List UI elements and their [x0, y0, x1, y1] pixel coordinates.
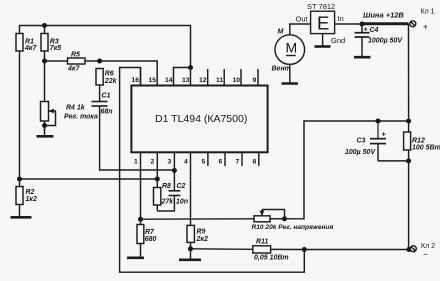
- capacitor C2: [169, 191, 181, 196]
- svg-text:E: E: [317, 13, 329, 34]
- resistor R8: [154, 179, 161, 211]
- node junction R5/R6/pin15: [97, 59, 102, 64]
- wire C2 top stub: [173, 171, 175, 191]
- pin number 16: [132, 77, 140, 84]
- svg-text:4: 4: [184, 159, 188, 166]
- svg-text:1000µ 50V: 1000µ 50V: [368, 38, 403, 45]
- label ST 7812: [307, 2, 335, 11]
- svg-text:C1: C1: [102, 93, 111, 100]
- ground below R4: [37, 126, 54, 137]
- svg-text:4к7: 4к7: [24, 45, 37, 52]
- svg-text:R7: R7: [145, 229, 155, 236]
- node junction R9/R11: [188, 246, 193, 251]
- svg-text:8: 8: [253, 159, 257, 166]
- wire R9 node to R11: [191, 248, 253, 251]
- svg-text:In: In: [338, 14, 344, 23]
- ground below R9: [179, 249, 201, 260]
- label C1 68n: [101, 93, 113, 116]
- svg-text:14: 14: [165, 77, 173, 84]
- svg-text:C2: C2: [177, 183, 186, 190]
- pin 3 wire down to node: [173, 152, 175, 170]
- svg-text:6: 6: [219, 159, 223, 166]
- svg-text:0,05 10Вт: 0,05 10Вт: [254, 254, 289, 261]
- pin number 3: [168, 159, 172, 166]
- label Vent: [272, 66, 291, 73]
- pin number 1: [134, 159, 138, 166]
- capacitor C1: [92, 102, 108, 107]
- resistor R2: [16, 179, 23, 216]
- svg-text:9: 9: [253, 77, 257, 84]
- label R9 2k2: [196, 229, 208, 244]
- svg-text:+: +: [382, 130, 387, 139]
- svg-text:100µ 50V: 100µ 50V: [345, 149, 376, 156]
- ground below C4: [354, 56, 371, 59]
- svg-text:D1 TL494 (КА7500): D1 TL494 (КА7500): [155, 113, 247, 125]
- svg-text:Кл 2: Кл 2: [421, 243, 435, 250]
- pin 11 stub: [223, 69, 225, 86]
- resistor R6: [96, 69, 103, 102]
- node junction pin2/R8: [155, 177, 160, 182]
- wire 7812 Gnd to ground: [315, 34, 331, 47]
- svg-text:Gnd: Gnd: [331, 36, 345, 45]
- wire R10 node up to C3/R12 rail: [285, 121, 409, 219]
- svg-text:16: 16: [132, 77, 140, 84]
- node junction pin3/C2/C1-wire: [172, 168, 177, 173]
- svg-text:680: 680: [145, 236, 157, 243]
- wire node to pin 15: [100, 61, 158, 86]
- node junction R1/R2/pin2 wire: [17, 177, 22, 182]
- svg-text:10: 10: [233, 77, 241, 84]
- pin 6 stub: [224, 152, 226, 166]
- svg-text:R2: R2: [26, 189, 35, 196]
- label Shina +12V: [363, 11, 404, 20]
- svg-text:R5: R5: [71, 52, 80, 59]
- svg-text:R6: R6: [105, 71, 114, 78]
- motor M underline: [286, 55, 296, 57]
- wire R1 bottom to R2 node: [19, 51, 21, 179]
- pin 8 stub: [258, 152, 260, 166]
- svg-text:Out: Out: [296, 15, 309, 24]
- pin number 10: [233, 77, 241, 84]
- wire top rail from R1 to pin 13 column: [20, 26, 191, 86]
- svg-text:1: 1: [134, 159, 138, 166]
- svg-text:27k: 27k: [161, 199, 175, 206]
- svg-text:R12: R12: [412, 138, 425, 145]
- wire bus down right side to R12 node: [408, 24, 410, 121]
- pin number 12: [199, 77, 207, 84]
- resistor R1: [16, 34, 23, 52]
- label R2 1k2: [26, 189, 37, 203]
- label R8 27k: [161, 183, 175, 206]
- node junction R11/bottom rail: [302, 247, 307, 252]
- pin number 11: [216, 77, 223, 84]
- svg-text:22k: 22k: [104, 78, 118, 85]
- svg-text:100 5Вт: 100 5Вт: [412, 145, 440, 152]
- pin number 13: [182, 77, 190, 84]
- wire pin 16 to ground rail and up to R11 node: [120, 68, 305, 273]
- label R7 680: [145, 229, 157, 243]
- resistor R7: [137, 219, 144, 256]
- svg-text:R11: R11: [256, 238, 268, 245]
- resistor R9: [187, 225, 194, 248]
- label R11 0,05 10W: [254, 238, 289, 261]
- svg-text:R4 1k: R4 1k: [66, 105, 86, 112]
- node junction R4 wiper/ground: [42, 123, 47, 128]
- wire R10 right end: [270, 218, 285, 220]
- label C3 100u 50V plus: [345, 130, 387, 157]
- svg-text:1к2: 1к2: [26, 196, 37, 203]
- pin number 6: [219, 159, 223, 166]
- potentiometer R10: [254, 210, 285, 222]
- svg-text:11: 11: [216, 77, 223, 84]
- label D1 TL494 (KA7500): [155, 113, 247, 125]
- label R1 4k7: [24, 39, 37, 53]
- pin 10 stub: [240, 69, 242, 86]
- wire pin 14 tie to pin 13: [174, 68, 191, 86]
- svg-text:68n: 68n: [101, 109, 113, 116]
- capacitor C3: [370, 121, 409, 161]
- svg-text:7к5: 7к5: [50, 45, 61, 52]
- pin 1 wire down to R7 node: [140, 152, 142, 219]
- pin number 14: [165, 77, 173, 84]
- svg-text:M: M: [286, 40, 298, 56]
- svg-text:10n: 10n: [176, 199, 188, 206]
- potentiometer R4: [41, 61, 57, 131]
- svg-text:Рег. тока: Рег. тока: [64, 114, 98, 121]
- node junction pin1/R7: [138, 217, 143, 222]
- pin number 15: [149, 77, 157, 84]
- label C2 10n: [176, 183, 188, 206]
- label M designator: [278, 29, 284, 36]
- svg-text:2к2: 2к2: [196, 236, 208, 243]
- pin 4 wire down to R9: [190, 152, 192, 225]
- pin 5 stub: [207, 152, 209, 166]
- node junction R12 bottom / C3 bottom: [406, 158, 411, 163]
- bus Shina +12V thick wire: [361, 22, 409, 25]
- svg-text:2: 2: [151, 159, 155, 166]
- label Kl 2 minus: [421, 243, 435, 259]
- svg-text:Шина +12В: Шина +12В: [363, 11, 404, 20]
- label Out In Gnd: [296, 14, 346, 45]
- svg-text:C3: C3: [357, 138, 366, 145]
- resistor R12: [404, 121, 411, 161]
- wire pin 2 to R1/R2 node: [20, 178, 158, 180]
- label C4 1000u 50V plus: [364, 25, 404, 45]
- wire 7812 In to bus: [335, 23, 362, 25]
- svg-text:+: +: [364, 25, 369, 34]
- node junction Kl2: [406, 247, 411, 252]
- svg-text:Кл 1: Кл 1: [421, 9, 435, 16]
- pin number 2: [151, 159, 155, 166]
- svg-text:R8: R8: [162, 183, 171, 190]
- wire R7 node to R10 left: [141, 218, 255, 220]
- wire C1 bottom to pin 3 node: [100, 106, 175, 170]
- node junction C4 on bus: [360, 22, 365, 27]
- wire R12 node down to Kl2: [408, 161, 410, 250]
- capacitor C4: [355, 24, 370, 56]
- svg-text:M: M: [278, 29, 284, 36]
- svg-text:13: 13: [182, 77, 190, 84]
- svg-text:−: −: [423, 250, 428, 259]
- pin 12 stub: [207, 69, 209, 86]
- label R6 22k: [104, 71, 118, 86]
- svg-text:+: +: [423, 23, 428, 32]
- svg-text:C4: C4: [370, 27, 379, 34]
- node junction pin13/pin14/top rail: [188, 65, 193, 70]
- node junction R12 top: [406, 119, 411, 124]
- label R12 100 5W: [412, 138, 440, 152]
- label R4 1k Reg toka: [64, 105, 98, 121]
- resistor R3: [41, 26, 48, 62]
- motor M1 ventilator: [275, 35, 305, 65]
- svg-text:ST 7812: ST 7812: [307, 2, 335, 11]
- pin 16 stub: [140, 68, 142, 86]
- wire R8 bottom loop to C2 bottom: [157, 196, 174, 212]
- svg-text:3: 3: [168, 159, 172, 166]
- node junction R3 top on rail: [42, 23, 47, 28]
- resistor R5: [45, 58, 100, 64]
- svg-text:R9: R9: [197, 229, 206, 236]
- svg-text:5: 5: [202, 159, 206, 166]
- svg-text:Вент: Вент: [272, 66, 291, 73]
- wire R11 right to node: [271, 248, 305, 250]
- label R10 20k Reg napryazheniya: [252, 224, 334, 231]
- node junction C3 top: [376, 119, 381, 124]
- pin number 9: [253, 77, 257, 84]
- pin number 8: [253, 159, 257, 166]
- ground below R7: [127, 256, 144, 259]
- svg-text:4к7: 4к7: [67, 66, 80, 73]
- label E symbol inside 7812: [317, 13, 329, 34]
- svg-text:15: 15: [149, 77, 157, 84]
- label M inside motor: [286, 40, 298, 56]
- node junction R10 wiper/right terminal: [282, 216, 287, 221]
- wire motor to ground: [282, 64, 299, 83]
- pin 9 stub: [257, 69, 259, 86]
- IC U1 D1 TL494 box: [131, 86, 267, 153]
- label R5 4k7: [67, 52, 80, 73]
- svg-text:12: 12: [199, 77, 207, 84]
- pin 7 stub: [241, 152, 243, 166]
- wire 7812 Out to motor: [290, 24, 311, 35]
- pin 2 wire down to node: [156, 152, 158, 179]
- wire node to terminal Kl2: [304, 249, 409, 251]
- resistor R11: [253, 246, 271, 253]
- terminal Kl 1: [410, 21, 416, 27]
- label Kl 1 plus: [421, 9, 435, 32]
- terminal Kl 2: [410, 246, 416, 252]
- svg-text:R10 20k Рег. напряжения: R10 20k Рег. напряжения: [252, 224, 334, 231]
- regulator U2 7812 box: [311, 11, 335, 33]
- pin number 4: [184, 159, 188, 166]
- pin number 7: [236, 159, 240, 166]
- label R3 7k5: [50, 39, 61, 53]
- pin number 5: [202, 159, 206, 166]
- ground below R2: [11, 216, 32, 219]
- svg-text:7: 7: [236, 159, 240, 166]
- node junction R3/R5/R4: [42, 59, 47, 64]
